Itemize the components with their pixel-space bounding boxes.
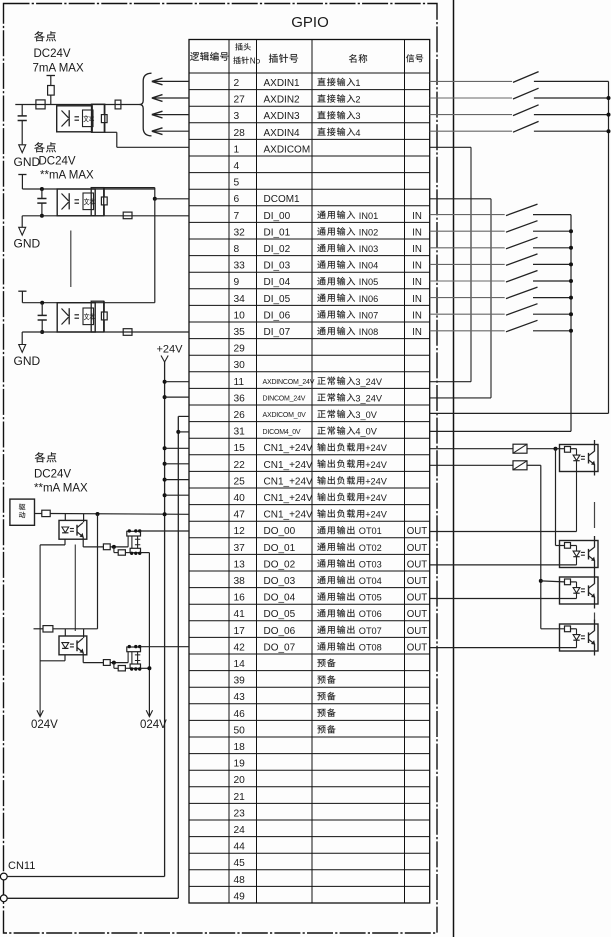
svg-text:48: 48	[234, 875, 246, 886]
svg-text:CN1_+24V: CN1_+24V	[264, 476, 314, 487]
input wire opto B	[34, 628, 98, 630]
svg-text:GND: GND	[14, 155, 41, 169]
svg-text:31: 31	[234, 427, 246, 438]
resistor R13 (emitter branch B)	[103, 660, 128, 666]
svg-text:11: 11	[234, 377, 245, 388]
+24V feed wire to external opto 3/4	[539, 465, 543, 629]
top rail wire, circuit 3	[22, 302, 154, 304]
svg-text:43: 43	[234, 692, 246, 703]
svg-text:24: 24	[234, 825, 246, 836]
DI return bus (right)	[569, 215, 573, 432]
output optocoupler B (DO_07)	[59, 636, 87, 655]
receiver box of U2	[91, 188, 104, 216]
svg-text:3: 3	[234, 111, 240, 122]
pull-up terminal bar and stub, circuit 1	[47, 76, 56, 86]
wire +24V bus to pin 25	[163, 478, 189, 482]
common vertical wire between circuit 2 and circuit 3	[154, 199, 156, 303]
svg-text:+24V: +24V	[157, 344, 184, 356]
svg-text:OT05: OT05	[359, 593, 382, 603]
svg-text:CN11: CN11	[8, 860, 35, 872]
svg-text:17: 17	[234, 626, 246, 637]
output optocoupler A (DO_00)	[59, 520, 87, 539]
driver block 驱动	[10, 499, 35, 525]
svg-text:13: 13	[234, 559, 246, 570]
svg-text:5: 5	[234, 178, 240, 189]
text box 文本 inside U1	[83, 110, 95, 127]
O1 LED cathode to pin 12 DO_00	[430, 461, 577, 532]
svg-text:OUT: OUT	[407, 559, 428, 570]
external optocoupler O3 (DO_04)	[560, 577, 599, 604]
svg-text:21: 21	[234, 792, 246, 803]
svg-text:DO_00: DO_00	[264, 526, 296, 537]
resistor R14 (lower branch B)	[114, 663, 130, 671]
svg-text:DI_05: DI_05	[264, 294, 291, 305]
switch S5 (DI_00)	[430, 204, 571, 216]
transistor leads opto A	[82, 537, 84, 547]
AXDIN return bus (right)	[607, 81, 611, 413]
+24V vertical bus	[164, 362, 166, 877]
O3 input path	[541, 581, 577, 588]
supply terminal bar, circuit 3	[18, 291, 26, 303]
svg-text:+24V: +24V	[365, 460, 388, 470]
svg-text:IN08: IN08	[359, 327, 378, 337]
series resistor R7 (DI_07 line)	[123, 329, 132, 336]
svg-text:IN02: IN02	[359, 227, 378, 237]
O2 collector/emitter leads	[594, 536, 596, 580]
switch S12 (DI_07)	[430, 320, 571, 332]
svg-text:CN1_+24V: CN1_+24V	[264, 510, 314, 521]
svg-text:IN01: IN01	[359, 211, 378, 221]
svg-text:29: 29	[234, 344, 246, 355]
external optocoupler O4 (DO_07)	[560, 624, 599, 651]
svg-text:IN: IN	[412, 227, 422, 238]
svg-text:39: 39	[234, 676, 246, 687]
svg-text:GND: GND	[14, 354, 41, 368]
LED anode stub into opto B	[64, 629, 66, 636]
supply terminal bar, circuit 2	[18, 175, 26, 190]
svg-text:40: 40	[234, 493, 246, 504]
collector stub opto B	[83, 629, 85, 638]
svg-text:OUT: OUT	[407, 526, 428, 537]
svg-text:DI_01: DI_01	[264, 227, 291, 238]
svg-text:34: 34	[234, 294, 246, 305]
header cell 名称	[349, 54, 367, 63]
receiver box of U3	[91, 301, 104, 332]
svg-text:IN: IN	[412, 244, 422, 255]
svg-text:36: 36	[234, 393, 246, 404]
svg-text:12: 12	[234, 526, 246, 537]
switch S6 (DI_01)	[430, 221, 571, 233]
svg-text:7mA MAX: 7mA MAX	[33, 63, 84, 75]
svg-text:4: 4	[355, 128, 360, 138]
wire driver output / +24V feed (pin 47)	[35, 512, 190, 516]
bottom rail wire to DI_07 (pin 35)	[22, 331, 189, 333]
svg-text:DICOM4_0V: DICOM4_0V	[263, 429, 301, 436]
svg-text:35: 35	[234, 327, 246, 338]
switch S11 (DI_06)	[430, 304, 571, 316]
svg-text:IN: IN	[412, 327, 422, 338]
switch S1 (AXDIN1)	[430, 72, 609, 83]
O1 collector/emitter leads	[594, 440, 596, 476]
0V vertical bus	[177, 416, 179, 898]
svg-text:GPIO: GPIO	[291, 14, 329, 31]
arrow wire AXDIN2 into table	[152, 95, 189, 102]
arrow wire AXDIN4 into table	[152, 128, 189, 135]
pin table outer border	[189, 40, 430, 904]
transistor leads opto B	[82, 652, 84, 662]
svg-text:AXDIN2: AXDIN2	[264, 95, 301, 106]
svg-text:30: 30	[234, 360, 246, 371]
svg-text:20: 20	[234, 775, 246, 786]
svg-text:8: 8	[234, 244, 240, 255]
wire +24V link down to opto B	[97, 514, 99, 629]
svg-text:OUT: OUT	[407, 609, 428, 620]
title GPIO	[291, 14, 329, 31]
svg-text:DO_07: DO_07	[264, 642, 296, 653]
O2 LED cathode to pin 13 DO_02	[430, 557, 577, 565]
wire 0V bus to pin 31	[176, 430, 189, 434]
optocoupler U3 (DI input)	[57, 303, 95, 332]
svg-text:OT06: OT06	[359, 609, 382, 619]
svg-text:27: 27	[234, 95, 246, 106]
emitter wire opto A	[83, 546, 103, 548]
svg-text:IN07: IN07	[359, 310, 378, 320]
resistor R11 (lower branch A)	[114, 547, 130, 555]
svg-text:1: 1	[355, 78, 360, 88]
svg-text:DINCOM_24V: DINCOM_24V	[263, 396, 306, 403]
svg-text:DI_07: DI_07	[264, 327, 291, 338]
svg-text:DCOM1: DCOM1	[264, 194, 301, 205]
collector stub opto A	[83, 514, 85, 522]
svg-text:28: 28	[234, 128, 246, 139]
svg-text:**mA MAX: **mA MAX	[34, 483, 88, 495]
wire DCOM1 (pin 6) external link	[430, 199, 491, 398]
wire +24V bus to pin 40	[163, 493, 189, 497]
svg-text:1: 1	[234, 144, 240, 155]
switch S8 (DI_03)	[430, 254, 571, 266]
O2 input path	[556, 546, 577, 552]
table row texts (pin No / signal name / description / IO)	[234, 78, 428, 903]
svg-text:GND: GND	[14, 237, 41, 251]
load L1 (relay) on pin 15 +24V	[430, 444, 558, 453]
svg-text:OT02: OT02	[359, 543, 382, 553]
text box 文本 inside U3	[83, 308, 95, 325]
svg-text:AXDICOM_0V: AXDICOM_0V	[263, 412, 307, 419]
external optocoupler O1 (DO_00)	[560, 445, 599, 472]
header cell 逻辑编号	[190, 52, 228, 61]
svg-text:CN1_+24V: CN1_+24V	[264, 460, 314, 471]
label 各点 DC24V **mA MAX (DI inputs)	[34, 142, 94, 181]
optocoupler U1 (AXDIN input)	[57, 106, 92, 132]
LED anode stub into opto A	[64, 514, 66, 521]
svg-text:47: 47	[234, 510, 246, 521]
svg-text:50: 50	[234, 725, 246, 736]
svg-text:OUT: OUT	[407, 593, 428, 604]
svg-text:42: 42	[234, 642, 246, 653]
series resistor R5 (DI_00 line)	[123, 212, 132, 219]
svg-text:DC24V: DC24V	[34, 469, 71, 481]
svg-text:AXDIN3: AXDIN3	[264, 111, 301, 122]
svg-text:DC24V: DC24V	[34, 48, 71, 60]
drawing border frame (dash-dot)	[4, 4, 438, 934]
connector boundary vertical line	[453, 0, 455, 937]
+24V feed wire to external opto 2	[555, 449, 557, 546]
svg-text:IN: IN	[412, 277, 422, 288]
filter capacitor C2	[37, 187, 46, 218]
svg-text:37: 37	[234, 543, 246, 554]
svg-text:DO_04: DO_04	[264, 593, 296, 604]
svg-text:IN: IN	[412, 261, 422, 272]
svg-text:+24V: +24V	[365, 493, 388, 503]
svg-text:22: 22	[234, 460, 246, 471]
svg-text:4_0V: 4_0V	[355, 427, 377, 437]
svg-text:DO_03: DO_03	[264, 576, 296, 587]
svg-text:23: 23	[234, 808, 246, 819]
svg-text:44: 44	[234, 842, 246, 853]
pin table column lines	[229, 40, 405, 904]
svg-text:16: 16	[234, 593, 246, 604]
svg-text:IN05: IN05	[359, 277, 378, 287]
svg-text:AXDINCOM_24V: AXDINCOM_24V	[263, 379, 315, 386]
label +24V with arrow	[157, 344, 184, 363]
svg-text:25: 25	[234, 476, 246, 487]
switch S9 (DI_04)	[430, 271, 571, 283]
svg-text:3_0V: 3_0V	[355, 410, 377, 420]
svg-text:DC24V: DC24V	[39, 156, 76, 168]
svg-text:AXDICOM: AXDICOM	[264, 144, 311, 155]
resistor R12 (opto B input)	[43, 626, 53, 632]
wire network A to 0V rail (right)	[141, 553, 150, 716]
svg-text:33: 33	[234, 261, 246, 272]
arrow wire AXDIN1 into table	[152, 78, 189, 85]
O4 collector/emitter leads	[594, 620, 596, 656]
svg-text:CN1_+24V: CN1_+24V	[264, 493, 314, 504]
emitter wire opto B	[83, 662, 103, 664]
O1 input path	[556, 449, 577, 455]
svg-text:OUT: OUT	[407, 642, 428, 653]
optocoupler U2 (DI input)	[57, 189, 95, 216]
protection network (zener clamp) B	[127, 645, 142, 671]
CN11 terminal 1 (+24V)	[0, 873, 7, 880]
svg-text:26: 26	[234, 410, 246, 421]
svg-text:IN06: IN06	[359, 294, 378, 304]
arrow wire AXDIN3 into table	[152, 111, 189, 118]
top rail wire, circuit 2	[22, 188, 154, 190]
svg-text:2: 2	[355, 95, 360, 105]
svg-text:IN: IN	[412, 294, 422, 305]
wire network A to pin 12 DO_00	[140, 530, 189, 532]
O3 LED cathode to pin 16 DO_04	[430, 593, 577, 598]
wire +24V bus to pin 22	[163, 462, 189, 466]
svg-text:46: 46	[234, 709, 246, 720]
filter capacitor C3	[38, 301, 47, 334]
external optocoupler O2 (DO_02)	[560, 541, 599, 568]
svg-text:DI_02: DI_02	[264, 244, 291, 255]
continuation mark between O3 and O4	[594, 613, 596, 622]
wire AXDICOM return (to pin 1)	[105, 132, 189, 147]
svg-text:15: 15	[234, 443, 246, 454]
svg-text:2: 2	[234, 78, 240, 89]
wire +24V bus to pin 15	[163, 446, 189, 450]
wire DCOM1 (to pin 6)	[104, 188, 189, 201]
svg-text:DO_01: DO_01	[264, 543, 296, 554]
wire network B joins 0V rail	[141, 666, 152, 670]
input rail wire, circuit 1	[15, 104, 139, 106]
svg-text:OT01: OT01	[359, 526, 382, 536]
svg-text:6: 6	[234, 194, 240, 205]
svg-text:CN1_+24V: CN1_+24V	[264, 443, 314, 454]
svg-text:AXDIN4: AXDIN4	[264, 128, 301, 139]
svg-text:IN04: IN04	[359, 261, 378, 271]
svg-text:AXDIN1: AXDIN1	[264, 78, 301, 89]
svg-text:49: 49	[234, 891, 246, 902]
svg-text:DI_06: DI_06	[264, 310, 291, 321]
resistor R9 (driver to opto A)	[42, 510, 50, 516]
wire DI return bus to pin 31	[430, 430, 571, 432]
svg-text:3_24V: 3_24V	[355, 377, 382, 387]
svg-text:4: 4	[234, 161, 240, 172]
svg-text:+24V: +24V	[365, 476, 388, 486]
O4 LED cathode to pin 42 DO_07	[430, 640, 577, 647]
pin table header separator and row lines	[189, 73, 430, 886]
svg-text:3_24V: 3_24V	[355, 393, 382, 403]
wire network B to pin 42 DO_07	[140, 646, 189, 648]
wire CN11 terminal 2 to 0V bus	[7, 897, 178, 899]
resistor R10 (emitter branch A)	[103, 544, 128, 550]
svg-text:7: 7	[234, 211, 240, 222]
resistor R1 (vertical, circuit 1)	[48, 86, 55, 105]
wire AXDIN return bus to pin 26	[430, 412, 609, 414]
svg-text:DO_02: DO_02	[264, 559, 296, 570]
svg-text:19: 19	[234, 759, 246, 770]
filter capacitor C1	[18, 105, 27, 145]
curly brace to AXDIN arrows	[140, 73, 152, 136]
svg-text:+24V: +24V	[365, 510, 388, 520]
resistor R4 (inside receiver, circuit 1)	[101, 104, 107, 132]
CN11 terminal 2 (0V)	[0, 895, 7, 902]
switch S10 (DI_05)	[430, 287, 571, 299]
wire AXDICOM (pin 1) external link	[430, 147, 471, 381]
svg-text:10: 10	[234, 310, 246, 321]
svg-text:IN: IN	[412, 310, 422, 321]
svg-text:024V: 024V	[31, 719, 58, 731]
wire +24V bus to pin 36	[163, 395, 189, 399]
svg-text:OUT: OUT	[407, 543, 428, 554]
svg-text:OT08: OT08	[359, 642, 382, 652]
svg-text:IN03: IN03	[359, 244, 378, 254]
ground drop and symbol GND, circuit 2	[14, 216, 41, 251]
switch S4 (AXDIN4)	[430, 121, 609, 132]
LED cathode path opto B	[40, 655, 65, 661]
wire +24V bus to pin 11	[163, 380, 189, 384]
switch S3 (AXDIN3)	[430, 105, 609, 116]
svg-text:**mA MAX: **mA MAX	[40, 170, 94, 182]
LED cathode path opto A to 0V rail (left)	[40, 539, 65, 716]
wire CN11 terminal 1 to +24V bus	[7, 876, 164, 878]
label 各点 DC24V 7mA MAX (AXDIN inputs)	[33, 31, 84, 74]
switch S2 (AXDIN2)	[430, 88, 609, 99]
svg-text:41: 41	[234, 609, 246, 620]
resistor R8 (inside receiver, circuit 3)	[101, 301, 107, 332]
svg-text:32: 32	[234, 227, 246, 238]
svg-text:DI_00: DI_00	[264, 211, 291, 222]
header cell 插针号	[269, 54, 298, 63]
wire 0V bus to pin 26	[178, 415, 189, 417]
header cell 信号	[406, 54, 423, 62]
O4 input path	[541, 629, 577, 635]
svg-text:18: 18	[234, 742, 246, 753]
svg-text:45: 45	[234, 858, 246, 869]
svg-text:DO_05: DO_05	[264, 609, 296, 620]
svg-text:+24V: +24V	[365, 443, 388, 453]
svg-text:DO_06: DO_06	[264, 626, 296, 637]
svg-text:IN: IN	[412, 211, 422, 222]
ground drop and symbol GND, circuit 3	[14, 332, 41, 368]
svg-text:DI_03: DI_03	[264, 261, 291, 272]
series resistor R3 output side, circuit 1	[115, 100, 121, 109]
svg-text:No: No	[250, 56, 261, 65]
svg-text:OT03: OT03	[359, 559, 382, 569]
svg-text:3: 3	[355, 111, 360, 121]
O3 collector/emitter leads	[594, 580, 596, 609]
continuation mark (repeated output circuits)	[74, 545, 76, 632]
load L2 (relay) on pin 22 +24V	[430, 461, 541, 470]
protection network (zener clamp) A	[127, 529, 142, 555]
series resistor R2 on rail, circuit 1	[36, 100, 45, 109]
label 各点 DC24V **mA MAX (outputs)	[34, 452, 88, 494]
bottom rail wire to DI_00 (pin 7)	[22, 215, 189, 217]
0V arrow 024V (right)	[140, 710, 167, 731]
continuation mark (repeated DI circuits)	[70, 231, 72, 288]
receiver box of U1	[92, 104, 105, 132]
connector CN11 label	[8, 860, 35, 872]
continuation mark between O1 and O2	[594, 502, 596, 528]
switch S7 (DI_02)	[430, 237, 571, 249]
svg-text:024V: 024V	[140, 719, 167, 731]
svg-text:38: 38	[234, 576, 246, 587]
header cell 插头/插针No	[233, 43, 260, 65]
ground symbol GND, circuit 1	[14, 145, 41, 169]
svg-text:OUT: OUT	[407, 576, 428, 587]
svg-text:OT07: OT07	[359, 626, 382, 636]
svg-text:DI_04: DI_04	[264, 277, 291, 288]
svg-text:14: 14	[234, 659, 246, 670]
svg-text:OUT: OUT	[407, 626, 428, 637]
svg-text:OT04: OT04	[359, 576, 382, 586]
resistor R6 (inside receiver, circuit 2)	[101, 188, 107, 216]
0V arrow 024V (left)	[31, 710, 58, 731]
text box 文本 inside U2	[83, 193, 95, 210]
svg-text:9: 9	[234, 277, 240, 288]
